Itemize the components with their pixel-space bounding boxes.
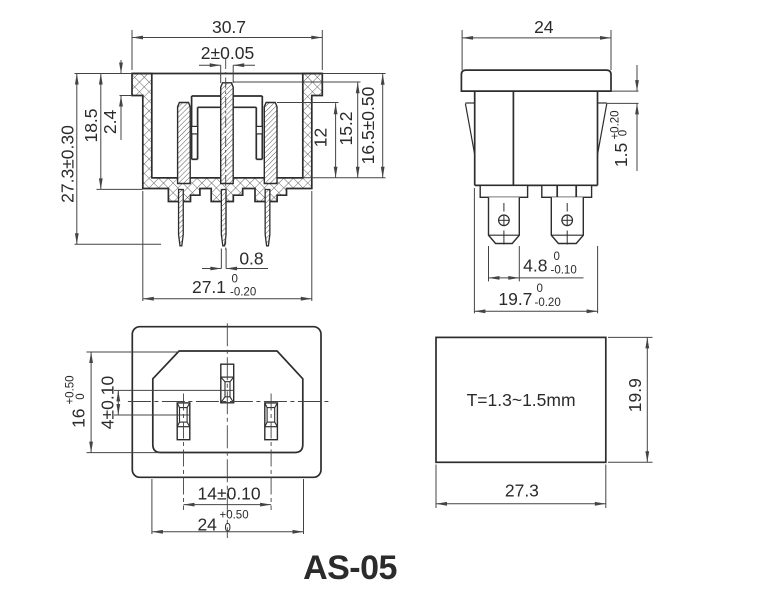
dimension 27.1 0/-0.20 (bottom width) — [142, 191, 144, 301]
svg-text:2.4: 2.4 — [100, 110, 120, 135]
socket body section (hatched walls, flanges, bottom and bosses) — [132, 74, 322, 202]
svg-text:0: 0 — [554, 251, 560, 263]
right solder pin — [265, 190, 270, 246]
svg-text:16.5±0.50: 16.5±0.50 — [358, 86, 378, 164]
right pin centerline — [270, 394, 272, 511]
right terminal blade with hole — [551, 197, 583, 243]
left mounting wing — [465, 102, 474, 104]
outer flange outline (rounded rect) — [132, 327, 321, 478]
side view: socket with mounting wings — [461, 17, 639, 313]
svg-text:19.7: 19.7 — [498, 289, 532, 309]
svg-text:27.1: 27.1 — [192, 277, 226, 297]
right pin (face view) — [265, 403, 278, 440]
left pin (face view) — [177, 403, 190, 440]
svg-text:15.2: 15.2 — [336, 111, 356, 145]
vertical centerline — [226, 323, 228, 538]
svg-text:2±0.05: 2±0.05 — [201, 43, 254, 63]
flange (side) — [461, 70, 611, 91]
dimension 19.9 (plate height) — [608, 336, 653, 338]
svg-text:-0.10: -0.10 — [551, 265, 577, 277]
svg-text:-0.20: -0.20 — [535, 297, 561, 309]
dimension 1.5 +0.20/0 (flange to wing gap) — [611, 90, 639, 92]
dimension 2.4 (flange thickness) — [120, 60, 122, 74]
svg-text:1.5: 1.5 — [611, 143, 631, 167]
left terminal blade with hole — [489, 197, 520, 243]
sectional view: socket body cross-section — [58, 17, 386, 301]
plate rectangle — [436, 337, 606, 462]
center solder pin — [221, 190, 226, 246]
svg-text:T=1.3~1.5mm: T=1.3~1.5mm — [467, 390, 576, 410]
svg-text:24: 24 — [534, 17, 554, 37]
dimension 12 (blade depth) — [277, 102, 339, 104]
dimension 24 (flange width) — [461, 30, 463, 70]
svg-text:27.3±0.30: 27.3±0.30 — [58, 125, 78, 203]
dimension 24 +0.50/0 (opening width) — [151, 479, 153, 534]
dimension 27.3±0.30 (overall height) — [76, 74, 78, 245]
dimension 16.5±0.50 (cavity depth) — [322, 73, 385, 75]
plate view: rectangle with thickness note — [436, 337, 653, 508]
dimension 4±0.10 (earth pin offset) — [114, 389, 234, 391]
dimension 15.2 (earth blade depth) — [233, 81, 360, 83]
svg-text:0: 0 — [225, 523, 231, 535]
earth pin centerline — [225, 58, 227, 252]
dimension 16 +0.50/0 (opening height) — [87, 351, 180, 353]
svg-text:18.5: 18.5 — [81, 108, 101, 142]
svg-text:4.8: 4.8 — [523, 256, 547, 276]
right mounting wing — [598, 102, 607, 104]
dimension 30.7 (top width) — [131, 30, 133, 70]
face view: socket front face with pins — [64, 323, 329, 538]
right terminal base — [542, 185, 592, 197]
dimension 18.5 (body height) — [100, 74, 102, 190]
svg-text:12: 12 — [310, 128, 330, 147]
body parting line — [512, 91, 514, 185]
svg-text:0: 0 — [232, 274, 238, 286]
dimension 0.8 (pin thickness) — [220, 249, 222, 269]
earth pin (face view) — [221, 364, 234, 403]
svg-text:AS-05: AS-05 — [303, 549, 397, 587]
dimension 27.3 (plate width) — [435, 465, 437, 509]
earth contact blade (center) — [221, 83, 234, 184]
inner recess box right wall — [261, 96, 263, 159]
svg-text:0.8: 0.8 — [239, 249, 263, 269]
left terminal base — [480, 185, 527, 197]
inner recess box top edges — [192, 95, 221, 97]
svg-text:24: 24 — [197, 515, 217, 535]
svg-text:19.9: 19.9 — [625, 378, 645, 412]
dimension 14±0.10 (pin spacing) — [184, 504, 272, 506]
svg-text:27.3: 27.3 — [505, 481, 539, 501]
left pin centerline — [183, 394, 185, 511]
dimension 19.7 0/-0.20 (body width) — [473, 188, 475, 313]
recess wall tab right — [256, 126, 262, 133]
cavity floor line — [152, 177, 178, 179]
svg-text:16: 16 — [69, 408, 89, 427]
svg-text:0: 0 — [537, 283, 543, 295]
top face line — [132, 73, 322, 75]
svg-text:0: 0 — [618, 130, 630, 136]
body (side) — [474, 91, 476, 185]
svg-text:+0.50: +0.50 — [220, 510, 249, 522]
right contact blade — [264, 103, 277, 184]
svg-text:30.7: 30.7 — [212, 17, 246, 37]
inlet opening outline — [153, 351, 303, 453]
dimension 4.8 0/-0.10 (terminal width) — [488, 246, 490, 281]
recess wall tab left — [192, 126, 198, 133]
horizontal centerline — [128, 401, 330, 403]
left contact blade — [178, 103, 191, 184]
svg-text:4±0.10: 4±0.10 — [98, 376, 118, 430]
svg-text:0: 0 — [75, 393, 87, 399]
svg-text:14±0.10: 14±0.10 — [198, 484, 261, 504]
svg-text:-0.20: -0.20 — [230, 287, 256, 299]
inner recess box left wall — [191, 96, 193, 159]
left solder pin — [179, 190, 184, 246]
dimension 2±0.05 (earth blade width) — [220, 65, 222, 83]
